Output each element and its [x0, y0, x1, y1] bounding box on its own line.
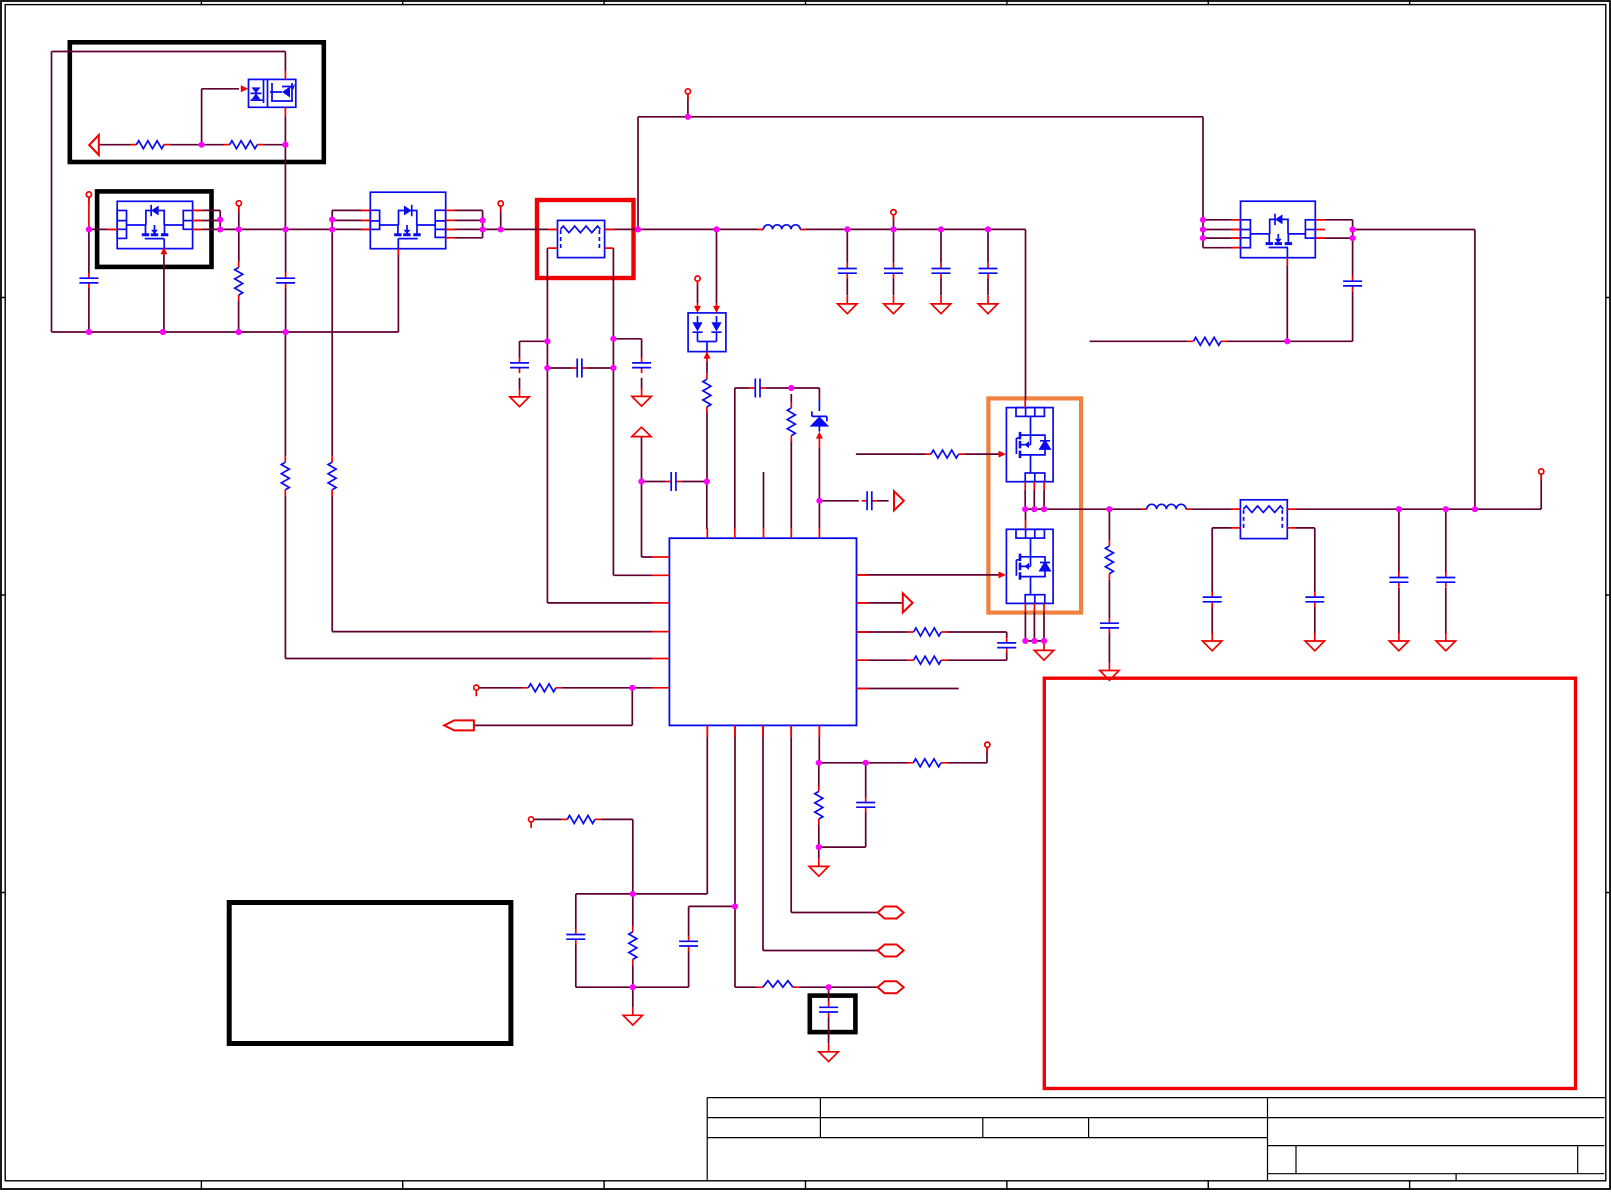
wire column x332: [331, 210, 333, 631]
terminal T3: [498, 201, 503, 212]
wire OFET1 source drops: [1025, 490, 1044, 509]
wire top-left loop: [52, 52, 286, 333]
resistor R1: [130, 141, 170, 149]
highlight box red large bottom-right: [1044, 678, 1575, 1088]
wire F2 pin column left: [1212, 528, 1231, 633]
ground G11: [1389, 633, 1408, 651]
wire rail y341: [1090, 340, 1353, 342]
mosfet Q5 lower: [1006, 529, 1053, 603]
capacitor C7: [572, 359, 588, 378]
wire gate drive upper: [856, 453, 999, 455]
wire FET1 right pins tie: [196, 210, 220, 229]
ground G8: [1100, 663, 1119, 681]
ground G7 sources: [1034, 642, 1053, 660]
capacitor C11: [932, 263, 951, 279]
mosfet Q1 pin stubs: [108, 210, 203, 254]
ground G2: [632, 388, 651, 406]
resistor R17: [629, 926, 637, 966]
capacitor C18: [1389, 572, 1408, 588]
wire main rail FET2-fuse: [446, 228, 558, 230]
capacitor C15: [1100, 618, 1119, 634]
terminal T9: [529, 817, 534, 828]
wire terminal T3 drop: [500, 206, 502, 229]
ground G6: [978, 296, 997, 314]
wire column x285 rail to R4: [284, 332, 286, 659]
fuse F2: [1240, 500, 1287, 539]
mosfet Q2 package: [370, 192, 445, 249]
wire gate drive lower: [857, 574, 999, 576]
wire pinC column: [763, 725, 878, 950]
wire D1 output column: [706, 362, 708, 529]
capacitor C14: [862, 491, 878, 510]
wire terminal T5 drop: [687, 94, 689, 117]
resistor R19 sawtooth: [757, 981, 799, 988]
wire F1 pin3 to IC pin3: [547, 368, 652, 603]
capacitor C20: [1343, 276, 1362, 292]
ground G5: [931, 296, 950, 314]
ground G3: [838, 296, 857, 314]
wire terminal T2 drop: [238, 206, 240, 230]
wire zener branch: [791, 388, 819, 400]
wire gnd stub C6: [641, 378, 643, 389]
wire IC pin10 stub: [857, 688, 959, 690]
wire output rail y509: [1025, 508, 1541, 510]
wire main rail inductor-right: [800, 228, 1025, 230]
wire gnd stub C5: [519, 378, 521, 389]
wire FET1 gate column: [163, 255, 165, 333]
capacitor C13: [750, 379, 766, 398]
wire box1 gate loop: [202, 89, 239, 145]
net arrow left box1: [89, 135, 99, 155]
ground G13: [623, 1007, 642, 1025]
resistor R14: [1105, 540, 1113, 580]
terminal diamond D2: [878, 945, 904, 957]
terminal T7 output: [1539, 469, 1544, 480]
wire pinD column: [791, 725, 877, 912]
wire top rail y116.8: [638, 117, 1203, 230]
inductor L2: [1141, 504, 1192, 509]
wire fuse F1 pin2 column: [612, 248, 614, 575]
wire pack U1 bottom to rail: [284, 117, 286, 145]
resistor R6: [703, 373, 711, 413]
mosfet Q1 gate arrow: [160, 247, 167, 254]
ground G15: [809, 858, 828, 876]
terminal T2: [236, 201, 241, 212]
resistor R18: [815, 785, 823, 825]
wire main rail left: [89, 228, 117, 230]
wire fuse F1 pin3 column: [520, 248, 548, 368]
wire bottom net x632: [632, 894, 634, 1008]
ic U2 pin stubs: [652, 528, 869, 738]
wire pinE column: [819, 725, 987, 762]
resistor R7: [908, 628, 948, 636]
wire FET2 left pins: [332, 210, 370, 220]
gate arrow into pack U1: [241, 85, 249, 92]
resistor R5: [328, 456, 336, 496]
terminal diamond D1: [878, 907, 904, 919]
highlight box black bottom-left: [229, 903, 511, 1044]
diode pack D1 arrows: [694, 306, 701, 313]
wire pinA column: [633, 725, 708, 894]
wire column x285 to main rail: [284, 145, 286, 230]
fuse F2 pin stubs: [1231, 509, 1297, 528]
diode pack D1: [688, 313, 726, 352]
wire cap C10 column: [893, 229, 895, 295]
highlight box black FET1: [97, 191, 211, 267]
wire terminal T6 drop: [893, 215, 895, 230]
wire R13 column: [790, 394, 792, 529]
wire cap C2 column: [285, 229, 287, 332]
wire IC pin9 RC: [857, 652, 1007, 660]
wire bottom rail GND1 y332: [52, 331, 399, 333]
capacitor C1: [79, 273, 98, 289]
wire C21 branch: [576, 894, 633, 987]
ground G9: [1203, 633, 1222, 651]
capacitor C10: [884, 263, 903, 279]
terminal diamond D3: [878, 981, 904, 993]
net arrow comp: [894, 491, 904, 510]
wire FET2 right pins tie: [455, 210, 483, 237]
wire IC pin6 input: [479, 687, 652, 689]
wire rail to OFET1 drain: [1025, 229, 1027, 399]
mosfet Q4 upper: [1006, 408, 1053, 482]
wire FET3 gate column: [1286, 266, 1288, 341]
mosfet Q1 package: [117, 201, 192, 248]
wire input R16: [534, 819, 633, 894]
wire diode pack feeds: [698, 229, 717, 303]
resistor R9: [522, 684, 562, 692]
mosfet Q3 pin stubs: [1231, 220, 1325, 266]
wire sawtooth feed: [735, 986, 878, 988]
capacitor C5: [510, 357, 529, 373]
capacitor C24: [856, 797, 875, 813]
highlight box black cap C19: [810, 996, 856, 1033]
resistor R15: [1187, 337, 1227, 345]
power flag up: [632, 427, 651, 436]
wire comp out branch: [819, 500, 888, 502]
wire source tie to gnd: [1025, 641, 1044, 643]
wire IC pin4 feed: [332, 631, 652, 633]
highlight box black top-left: [70, 42, 324, 162]
ground G10: [1305, 633, 1324, 651]
mosfet Q3 package: [1241, 201, 1316, 258]
capacitor C9: [838, 263, 857, 279]
fuse F1: [558, 220, 605, 257]
wire F2 pin column right: [1296, 528, 1315, 633]
wire VIN terminal drop: [88, 197, 90, 229]
mosfet Q2 pin stubs: [361, 210, 455, 254]
ground G1: [510, 389, 529, 407]
wire output terminal riser: [1540, 474, 1542, 509]
wire C23 drop: [828, 987, 830, 1044]
resistor R4: [281, 456, 289, 496]
wire cap C11 column: [940, 229, 942, 295]
wire resistor R3 column: [238, 229, 240, 332]
protection pack U1: [249, 79, 296, 107]
fuse F1 pin stubs: [547, 229, 614, 248]
ground G12: [1436, 633, 1455, 651]
resistor R10: [907, 759, 947, 767]
ic U2 main controller: [669, 538, 856, 725]
ground G14: [819, 1044, 838, 1062]
wire nc stub x763: [763, 472, 765, 529]
wire cap C17 column: [1445, 509, 1447, 633]
wire C22 branch: [689, 906, 735, 987]
terminal T1: [86, 192, 91, 203]
gate arrow OFET2: [999, 571, 1007, 578]
wire main rail mid: [193, 228, 371, 230]
resistor R13: [787, 402, 795, 442]
wire IC pin2 feed: [613, 574, 652, 576]
capacitor C23 boxed: [819, 1002, 838, 1018]
wire upflag net to C8: [642, 437, 653, 557]
wire zener to dot: [818, 448, 820, 529]
wire cap C16 column: [1398, 509, 1400, 633]
wire R18 C24 gnd net: [819, 763, 866, 859]
wire pack U1 top feed: [284, 52, 286, 71]
wire FET2 gate riser: [397, 255, 399, 333]
wire right drop x1474: [1474, 230, 1476, 510]
resistor R2: [224, 141, 264, 149]
resistor R8: [908, 656, 948, 664]
terminal T5: [685, 89, 690, 100]
capacitor C12: [979, 263, 998, 279]
capacitor C19: [1436, 572, 1455, 588]
capacitor C25: [997, 637, 1016, 653]
terminal T6: [891, 210, 896, 221]
wire cap C1 column: [88, 229, 90, 332]
wire C18 column: [1352, 238, 1354, 341]
wire pin6 to flag: [474, 688, 632, 726]
wire snubber R14 column: [1108, 509, 1110, 663]
pack U1 pin stubs: [284, 71, 286, 117]
wire cap C9 column: [846, 229, 848, 295]
wire FET3 right pins: [1315, 220, 1475, 238]
resistor R16: [561, 815, 601, 823]
wire cap C12 column: [987, 229, 989, 295]
title block: [707, 1098, 1606, 1181]
capacitor C16: [1203, 592, 1222, 608]
capacitor C22: [679, 936, 698, 952]
capacitor C2: [276, 273, 295, 289]
wire branch to C6: [613, 339, 641, 358]
diode pack D1 pin stubs: [698, 303, 717, 362]
net arrow pin7: [903, 593, 913, 612]
wire IC pin8 RC: [857, 632, 1007, 638]
terminal T11 diode pack: [695, 276, 700, 285]
net flag left: [444, 720, 474, 730]
highlight box orange half-bridge: [988, 398, 1081, 612]
capacitor C6: [632, 357, 651, 373]
ground G4: [884, 296, 903, 314]
resistor R12 gate: [925, 450, 965, 458]
wire OFET2 drain feed: [1025, 509, 1027, 520]
terminal T10: [985, 742, 990, 753]
wire box1 divider rail y144.7: [99, 144, 286, 146]
terminal T8: [474, 685, 479, 696]
zener diode Z1: [810, 400, 830, 432]
wire cap C7 bridge: [547, 367, 613, 369]
wire IC pin5 feed: [285, 658, 652, 660]
wire cap C13 chain: [735, 388, 792, 529]
highlight box red fuse F1: [537, 200, 634, 278]
wire pinB column: [734, 725, 736, 987]
zener Z1 arrow: [816, 432, 823, 439]
wire IC pin7 out: [857, 602, 903, 604]
wire OFET2 source drops: [1025, 612, 1044, 641]
wire FET3 left pins: [1203, 117, 1241, 248]
wire bottom rail left: [576, 986, 689, 988]
wire main rail fuse-inductor: [605, 228, 764, 230]
capacitor C8: [666, 472, 682, 491]
wire cap C8 bridge: [642, 481, 707, 483]
resistor R3: [235, 261, 243, 301]
gate arrow OFET1: [999, 451, 1007, 458]
inductor L1: [757, 225, 806, 230]
mosfet Q4 pin stubs: [1025, 400, 1044, 491]
capacitor C17: [1305, 592, 1324, 608]
capacitor C21: [566, 929, 585, 945]
mosfet Q5 pin stubs: [1025, 521, 1044, 613]
